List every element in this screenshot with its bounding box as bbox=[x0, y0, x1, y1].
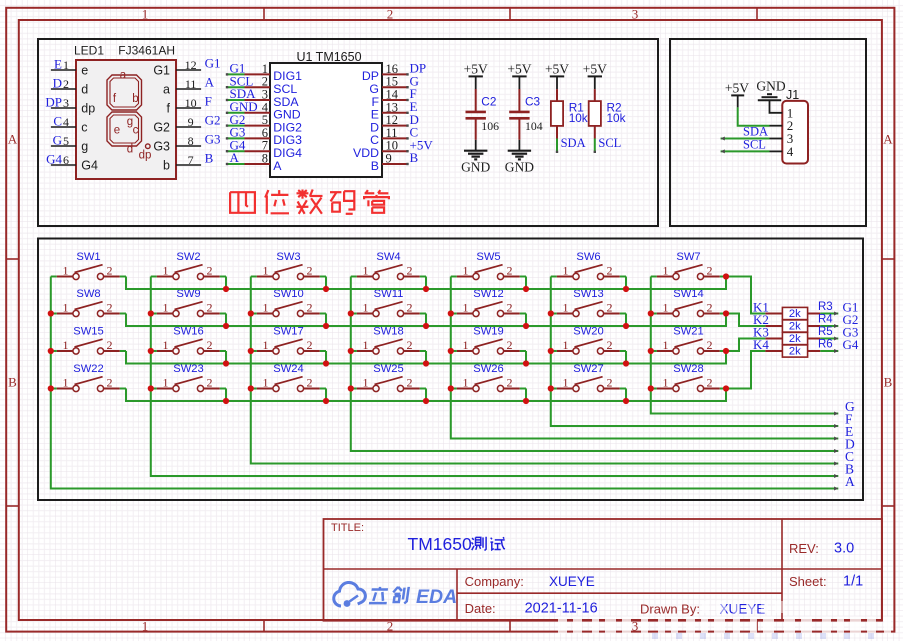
wire R3 output to G1 bbox=[808, 312, 839, 316]
junction row1 col4 bbox=[423, 286, 429, 292]
switch SW8 bbox=[57, 288, 120, 317]
junction row2 col2 bbox=[223, 323, 229, 329]
svg-text:1: 1 bbox=[142, 7, 149, 22]
svg-text:9: 9 bbox=[386, 152, 392, 166]
switch SW9 bbox=[157, 288, 220, 317]
svg-text:b: b bbox=[132, 93, 138, 105]
svg-text:2: 2 bbox=[407, 376, 413, 390]
power +5V above C2 bbox=[464, 62, 488, 90]
wire pin1 stub SW col4 row1 bbox=[351, 276, 357, 278]
svg-text:a: a bbox=[163, 83, 170, 97]
wire pin2 drop SW row4 col5 bbox=[525, 389, 527, 402]
svg-text:g: g bbox=[81, 140, 88, 154]
wire pin1 stub SW col2 row4 bbox=[151, 388, 157, 390]
wire pin2 drop SW row4 col2 bbox=[225, 389, 227, 402]
wire pin1 stub SW col6 row1 bbox=[551, 276, 557, 278]
junction col4 row3 bbox=[348, 348, 354, 354]
junction col6 row3 bbox=[548, 348, 554, 354]
box outline keypad section bbox=[38, 239, 863, 501]
junction row3 col2 bbox=[223, 360, 229, 366]
svg-text:2k: 2k bbox=[789, 333, 801, 345]
svg-text:2: 2 bbox=[507, 301, 513, 315]
label 四位数码管 bbox=[230, 190, 389, 214]
junction col6 row4 bbox=[548, 385, 554, 391]
wire pin2 drop SW row1 col4 bbox=[425, 277, 427, 290]
wire pin1 stub SW col1 row3 bbox=[51, 350, 57, 352]
wire row net K3 bus bbox=[126, 351, 726, 364]
wire pin2 drop SW row3 col5 bbox=[525, 351, 527, 364]
svg-text:GND: GND bbox=[756, 79, 785, 94]
title text 测试 bbox=[472, 537, 506, 551]
wire col7 pin2 joint row4 bbox=[720, 388, 726, 390]
junction col5 row3 bbox=[448, 348, 454, 354]
svg-text:REV:: REV: bbox=[789, 541, 819, 556]
svg-text:J1: J1 bbox=[786, 88, 799, 102]
svg-text:SW1: SW1 bbox=[76, 251, 100, 263]
svg-text:A: A bbox=[883, 132, 893, 147]
junction row2 col6 bbox=[623, 323, 629, 329]
switch SW2 bbox=[157, 251, 220, 280]
wire R4 output to G2 bbox=[808, 324, 839, 328]
junction row2 col7 pin2 bbox=[723, 310, 729, 316]
svg-text:1: 1 bbox=[63, 58, 69, 72]
switch SW28 bbox=[657, 363, 720, 392]
svg-text:2: 2 bbox=[607, 264, 613, 278]
switch SW3 bbox=[257, 251, 320, 280]
svg-text:SW2: SW2 bbox=[176, 251, 200, 263]
power +5V above C3 bbox=[507, 62, 531, 90]
svg-text:3.0: 3.0 bbox=[834, 541, 854, 557]
junction col2 row3 bbox=[148, 348, 154, 354]
wire pin1 stub SW col2 row3 bbox=[151, 350, 157, 352]
switch SW20 bbox=[557, 326, 620, 355]
svg-text:SW15: SW15 bbox=[73, 326, 103, 338]
svg-text:A: A bbox=[230, 150, 240, 165]
switch SW15 bbox=[57, 326, 120, 355]
svg-text:+5V: +5V bbox=[464, 62, 488, 77]
svg-text:1/1: 1/1 bbox=[843, 573, 863, 589]
switch SW26 bbox=[457, 363, 520, 392]
svg-text:+5V: +5V bbox=[725, 81, 749, 96]
svg-text:2: 2 bbox=[707, 338, 713, 352]
wire R6 output to G4 bbox=[808, 349, 839, 353]
svg-text:R5: R5 bbox=[818, 326, 833, 338]
svg-text:2: 2 bbox=[207, 264, 213, 278]
svg-text:XUEYE: XUEYE bbox=[549, 574, 595, 589]
wire pin1 stub SW col6 row4 bbox=[551, 388, 557, 390]
svg-text:SW18: SW18 bbox=[373, 326, 403, 338]
svg-text:Date:: Date: bbox=[465, 601, 496, 616]
wire R5 output to G3 bbox=[808, 337, 839, 341]
svg-text:K4: K4 bbox=[753, 337, 769, 352]
svg-text:SW28: SW28 bbox=[673, 363, 703, 375]
wire pin2 drop SW row2 col4 bbox=[425, 314, 427, 327]
svg-text:2: 2 bbox=[207, 338, 213, 352]
svg-text:R3: R3 bbox=[818, 301, 833, 313]
svg-text:GND: GND bbox=[505, 159, 534, 174]
wire column net B (pin1 bus col2) bbox=[151, 277, 839, 479]
wire net SDA to J1 pin3 bbox=[721, 125, 783, 141]
switch SW25 bbox=[357, 363, 420, 392]
wire column net E (pin1 bus col5) bbox=[451, 277, 839, 441]
watermark overlay bbox=[558, 601, 891, 639]
svg-text:Sheet:: Sheet: bbox=[789, 574, 827, 589]
wire col7 pin2 joint row1 bbox=[720, 276, 726, 278]
svg-text:f: f bbox=[167, 102, 171, 116]
wire pin1 stub SW col7 row4 bbox=[651, 388, 657, 390]
svg-text:d: d bbox=[127, 143, 133, 155]
svg-text:SCL: SCL bbox=[598, 136, 621, 150]
svg-text:2: 2 bbox=[707, 376, 713, 390]
svg-text:GND: GND bbox=[461, 159, 490, 174]
svg-text:SW6: SW6 bbox=[576, 251, 600, 263]
svg-text:SW25: SW25 bbox=[373, 363, 403, 375]
junction row4 col3 bbox=[323, 398, 329, 404]
svg-text:TM1650: TM1650 bbox=[408, 534, 472, 554]
wire pin1 stub SW col6 row2 bbox=[551, 313, 557, 315]
resistor R1 10k bbox=[551, 89, 588, 138]
svg-text:1: 1 bbox=[142, 619, 149, 634]
svg-text:Drawn By:: Drawn By: bbox=[640, 602, 700, 617]
junction col3 row2 bbox=[248, 310, 254, 316]
junction row2 col3 bbox=[323, 323, 329, 329]
svg-text:10k: 10k bbox=[607, 111, 626, 125]
switch SW19 bbox=[457, 326, 520, 355]
svg-text:9: 9 bbox=[188, 115, 194, 129]
junction row3 col4 bbox=[423, 360, 429, 366]
svg-text:SW23: SW23 bbox=[173, 363, 203, 375]
svg-text:G: G bbox=[53, 133, 62, 148]
wire pin1 stub SW col7 row1 bbox=[651, 276, 657, 278]
svg-text:12: 12 bbox=[185, 58, 197, 72]
wire pin2 stub row3 col6 bbox=[120, 350, 126, 352]
svg-text:d: d bbox=[81, 83, 88, 97]
svg-text:2: 2 bbox=[387, 7, 394, 22]
wire pin1 stub SW col1 row1 bbox=[51, 276, 57, 278]
svg-text:2: 2 bbox=[307, 264, 313, 278]
switch SW14 bbox=[657, 288, 720, 317]
wire pin1 stub SW col3 row1 bbox=[251, 276, 257, 278]
capacitor C3 104 bbox=[509, 89, 543, 140]
junction row4 col5 bbox=[523, 398, 529, 404]
svg-text:G2: G2 bbox=[153, 121, 170, 135]
junction row1 col6 bbox=[623, 286, 629, 292]
svg-text:G1: G1 bbox=[205, 56, 221, 71]
wire pin2 drop SW row2 col5 bbox=[525, 314, 527, 327]
wire pin2 drop SW row2 col3 bbox=[325, 314, 327, 327]
wire pin1 stub SW col4 row3 bbox=[351, 350, 357, 352]
svg-text:2: 2 bbox=[707, 264, 713, 278]
wire pin1 stub SW col7 row2 bbox=[651, 313, 657, 315]
junction row4 col6 bbox=[623, 398, 629, 404]
svg-text:2: 2 bbox=[707, 301, 713, 315]
wire pin2 drop SW row4 col6 bbox=[625, 389, 627, 402]
junction col2 row4 bbox=[148, 385, 154, 391]
svg-text:B: B bbox=[8, 375, 17, 390]
svg-text:+5V: +5V bbox=[545, 62, 569, 77]
connector J1 bbox=[782, 88, 808, 164]
wire column net G (pin1 bus col7) bbox=[651, 277, 839, 416]
svg-text:SW8: SW8 bbox=[76, 288, 100, 300]
svg-text:2k: 2k bbox=[789, 321, 801, 333]
svg-text:2021-11-16: 2021-11-16 bbox=[525, 601, 598, 617]
svg-text:2k: 2k bbox=[789, 308, 801, 320]
junction row2 col4 bbox=[423, 323, 429, 329]
resistor R3 2k bbox=[782, 307, 807, 320]
svg-text:SW26: SW26 bbox=[473, 363, 503, 375]
svg-text:4: 4 bbox=[787, 144, 794, 159]
junction row4 col4 bbox=[423, 398, 429, 404]
svg-text:EDA: EDA bbox=[416, 586, 457, 608]
junction col3 row4 bbox=[248, 385, 254, 391]
power +5V at J1 pin2 bbox=[725, 81, 749, 108]
svg-text:106: 106 bbox=[481, 119, 499, 133]
svg-text:SW24: SW24 bbox=[273, 363, 303, 375]
svg-text:7: 7 bbox=[188, 153, 194, 167]
wire pin1 stub SW col5 row3 bbox=[451, 350, 457, 352]
svg-text:G3: G3 bbox=[205, 132, 221, 147]
svg-text:A: A bbox=[205, 75, 215, 90]
Date field bbox=[465, 601, 598, 617]
switch SW6 bbox=[557, 251, 620, 280]
junction row4 col2 bbox=[223, 398, 229, 404]
svg-text:SW20: SW20 bbox=[573, 326, 603, 338]
wire pin2 drop SW row3 col2 bbox=[225, 351, 227, 364]
wire pin1 stub SW col2 row2 bbox=[151, 313, 157, 315]
junction row3 col3 bbox=[323, 360, 329, 366]
svg-text:+5V: +5V bbox=[507, 62, 531, 77]
junction row3 col6 bbox=[623, 360, 629, 366]
svg-text:G4: G4 bbox=[843, 337, 859, 352]
wire pin1 stub SW col5 row4 bbox=[451, 388, 457, 390]
resistor R5 2k bbox=[782, 332, 807, 345]
Company field bbox=[465, 574, 595, 589]
wire row net K1 bus bbox=[126, 277, 726, 290]
switch SW27 bbox=[557, 363, 620, 392]
svg-text:D: D bbox=[53, 76, 62, 91]
svg-text:TITLE:: TITLE: bbox=[331, 522, 364, 534]
power +5V above R2 bbox=[583, 62, 607, 90]
wire column net A (pin1 bus col1) bbox=[51, 277, 839, 491]
Drawn By field bbox=[640, 602, 765, 617]
junction row3 col7 pin2 bbox=[723, 348, 729, 354]
svg-text:G: G bbox=[845, 399, 855, 414]
ground GND below C3 bbox=[505, 140, 534, 175]
wire pin1 stub SW col3 row2 bbox=[251, 313, 257, 315]
svg-text:a: a bbox=[120, 70, 127, 82]
svg-text:G1: G1 bbox=[153, 64, 170, 78]
svg-text:2: 2 bbox=[607, 376, 613, 390]
svg-text:2: 2 bbox=[407, 264, 413, 278]
svg-text:SCL: SCL bbox=[743, 138, 766, 152]
wire pin1 stub SW col2 row1 bbox=[151, 276, 157, 278]
wire net K3 to R5 bbox=[726, 339, 782, 352]
svg-text:c: c bbox=[133, 125, 139, 137]
logo 立创EDA bbox=[334, 582, 457, 608]
wire pin1 stub SW col4 row4 bbox=[351, 388, 357, 390]
svg-text:c: c bbox=[81, 121, 87, 135]
wire column net D (pin1 bus col4) bbox=[351, 277, 839, 454]
junction col6 row2 bbox=[548, 310, 554, 316]
svg-text:2: 2 bbox=[507, 338, 513, 352]
svg-text:2: 2 bbox=[63, 77, 69, 91]
wire pin2 drop SW row2 col2 bbox=[225, 314, 227, 327]
wire pin1 stub SW col1 row4 bbox=[51, 388, 57, 390]
switch SW11 bbox=[357, 288, 420, 317]
svg-text:2: 2 bbox=[607, 301, 613, 315]
wire pin2 drop SW row1 col3 bbox=[325, 277, 327, 290]
wire pin1 stub SW col1 row2 bbox=[51, 313, 57, 315]
wire net K2 to R4 bbox=[726, 314, 782, 327]
junction row4 col7 pin2 bbox=[723, 385, 729, 391]
svg-text:R4: R4 bbox=[818, 314, 833, 326]
svg-text:10: 10 bbox=[185, 96, 197, 110]
svg-text:2: 2 bbox=[207, 301, 213, 315]
svg-text:F: F bbox=[205, 94, 212, 109]
wire pin2 drop SW row3 col4 bbox=[425, 351, 427, 364]
svg-text:G3: G3 bbox=[153, 140, 170, 154]
wire row net K2 bus bbox=[126, 314, 726, 327]
svg-text:SW3: SW3 bbox=[276, 251, 300, 263]
Sheet field bbox=[789, 573, 863, 589]
power +5V above R1 bbox=[545, 62, 569, 90]
switch SW10 bbox=[257, 288, 320, 317]
junction col5 row4 bbox=[448, 385, 454, 391]
svg-text:8: 8 bbox=[262, 152, 268, 166]
wire net SCL stub below R2 bbox=[594, 136, 622, 153]
switch SW23 bbox=[157, 363, 220, 392]
junction col5 row2 bbox=[448, 310, 454, 316]
svg-text:SW21: SW21 bbox=[673, 326, 703, 338]
svg-text:SW4: SW4 bbox=[376, 251, 400, 263]
svg-text:Company:: Company: bbox=[465, 574, 524, 589]
junction col4 row4 bbox=[348, 385, 354, 391]
ground GND below C2 bbox=[461, 140, 490, 175]
svg-text:5: 5 bbox=[63, 134, 69, 148]
switch SW22 bbox=[57, 363, 120, 392]
junction row1 col7 pin2 bbox=[723, 273, 729, 279]
switch SW7 bbox=[657, 251, 720, 280]
wire pin1 stub SW col5 row1 bbox=[451, 276, 457, 278]
junction col7 row2 bbox=[648, 310, 654, 316]
wire pin1 stub SW col5 row2 bbox=[451, 313, 457, 315]
svg-text:B: B bbox=[205, 151, 214, 166]
svg-text:LED1: LED1 bbox=[74, 44, 104, 58]
switch SW1 bbox=[57, 251, 120, 280]
svg-text:2k: 2k bbox=[789, 346, 801, 358]
svg-text:C3: C3 bbox=[525, 94, 541, 108]
junction row1 col5 bbox=[523, 286, 529, 292]
svg-text:SW16: SW16 bbox=[173, 326, 203, 338]
svg-text:FJ3461AH: FJ3461AH bbox=[118, 44, 175, 58]
svg-text:2: 2 bbox=[107, 301, 113, 315]
svg-text:C: C bbox=[53, 114, 62, 129]
svg-text:2: 2 bbox=[407, 301, 413, 315]
junction col1 row4 bbox=[48, 385, 54, 391]
svg-text:SW19: SW19 bbox=[473, 326, 503, 338]
wire pin2 drop SW row1 col5 bbox=[525, 277, 527, 290]
svg-text:10k: 10k bbox=[569, 111, 588, 125]
REV field bbox=[789, 541, 854, 557]
junction row1 col3 bbox=[323, 286, 329, 292]
svg-text:2: 2 bbox=[307, 376, 313, 390]
svg-text:3: 3 bbox=[63, 96, 69, 110]
svg-text:A: A bbox=[8, 132, 18, 147]
svg-text:4: 4 bbox=[63, 115, 69, 129]
svg-text:SW17: SW17 bbox=[273, 326, 303, 338]
switch SW24 bbox=[257, 363, 320, 392]
svg-text:2: 2 bbox=[107, 376, 113, 390]
wire pin1 stub SW col3 row3 bbox=[251, 350, 257, 352]
wire pin2 drop SW row3 col3 bbox=[325, 351, 327, 364]
resistor R6 2k bbox=[782, 345, 807, 358]
7-segment display LED1 FJ3461AH bbox=[45, 44, 220, 180]
svg-text:B: B bbox=[410, 150, 419, 165]
wire pin1 stub SW col3 row4 bbox=[251, 388, 257, 390]
svg-text:U1 TM1650: U1 TM1650 bbox=[296, 50, 361, 64]
svg-text:e: e bbox=[81, 64, 88, 78]
switch SW16 bbox=[157, 326, 220, 355]
switch SW13 bbox=[557, 288, 620, 317]
junction col2 row2 bbox=[148, 310, 154, 316]
wire pin2 drop SW row4 col4 bbox=[425, 389, 427, 402]
junction row2 col5 bbox=[523, 323, 529, 329]
svg-text:2: 2 bbox=[307, 301, 313, 315]
svg-text:C2: C2 bbox=[481, 94, 496, 108]
wire col7 pin2 joint row3 bbox=[720, 350, 726, 352]
box outline top-right section bbox=[670, 39, 866, 226]
svg-text:SW22: SW22 bbox=[73, 363, 103, 375]
svg-text:+5V: +5V bbox=[583, 62, 607, 77]
svg-text:R6: R6 bbox=[818, 339, 833, 351]
svg-text:A: A bbox=[273, 159, 282, 173]
svg-text:SW7: SW7 bbox=[676, 251, 700, 263]
svg-text:2: 2 bbox=[507, 264, 513, 278]
junction col3 row3 bbox=[248, 348, 254, 354]
svg-text:E: E bbox=[54, 57, 62, 72]
IC U1 TM1650 bbox=[226, 50, 434, 177]
svg-text:dp: dp bbox=[139, 149, 152, 161]
box outline top-left section bbox=[38, 39, 658, 226]
switch SW5 bbox=[457, 251, 520, 280]
junction col4 row2 bbox=[348, 310, 354, 316]
svg-text:104: 104 bbox=[525, 119, 543, 133]
wire pin2 drop SW row4 col3 bbox=[325, 389, 327, 402]
svg-text:SW5: SW5 bbox=[476, 251, 500, 263]
wire pin1 stub SW col6 row3 bbox=[551, 350, 557, 352]
junction col7 row4 bbox=[648, 385, 654, 391]
svg-text:DP: DP bbox=[45, 95, 62, 110]
junction col7 row3 bbox=[648, 348, 654, 354]
wire pin2 stub row2 col6 bbox=[120, 313, 126, 315]
title block bbox=[324, 519, 883, 621]
svg-text:2: 2 bbox=[107, 338, 113, 352]
svg-text:dp: dp bbox=[81, 102, 95, 116]
svg-text:B: B bbox=[884, 375, 893, 390]
svg-text:XUEYE: XUEYE bbox=[720, 602, 766, 617]
junction row3 col5 bbox=[523, 360, 529, 366]
wire col7 pin2 joint row2 bbox=[720, 313, 726, 315]
wire net SCL to J1 pin4 bbox=[721, 138, 783, 154]
svg-text:8: 8 bbox=[188, 134, 194, 148]
svg-text:2: 2 bbox=[407, 338, 413, 352]
svg-text:2: 2 bbox=[507, 376, 513, 390]
wire pin2 stub row1 col6 bbox=[120, 276, 126, 278]
wire net SDA stub below R1 bbox=[556, 136, 586, 153]
svg-text:11: 11 bbox=[185, 77, 197, 91]
wire pin2 drop SW row1 col2 bbox=[225, 277, 227, 290]
switch SW21 bbox=[657, 326, 720, 355]
